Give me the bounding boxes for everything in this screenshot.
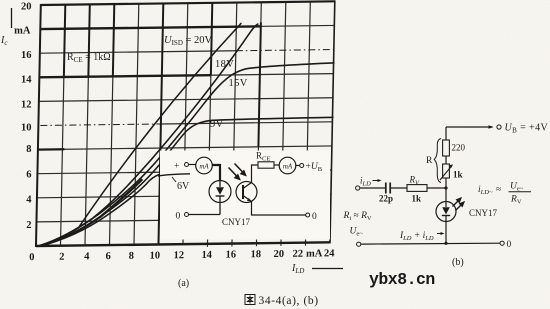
- node +U_B terminal (inset): [296, 165, 300, 167]
- x axis tick labels: [29, 248, 335, 263]
- svg-text:mA: mA: [199, 162, 209, 170]
- svg-text:2: 2: [26, 220, 31, 231]
- svg-text:mA: mA: [306, 248, 323, 259]
- svg-text:15V: 15V: [229, 78, 248, 89]
- wire: [36, 1, 335, 246]
- resistor 220: [443, 140, 450, 156]
- svg-text:20: 20: [21, 2, 32, 13]
- svg-text:1k: 1k: [453, 170, 463, 180]
- svg-text:0: 0: [29, 252, 34, 263]
- svg-text:22p: 22p: [379, 194, 393, 204]
- curve U=18V: [40, 24, 258, 246]
- svg-text:14: 14: [201, 250, 212, 261]
- svg-text:0: 0: [176, 212, 181, 222]
- svg-text:24: 24: [324, 248, 335, 259]
- svg-text:mA: mA: [14, 26, 31, 37]
- svg-text:mA: mA: [283, 162, 293, 170]
- svg-text:220: 220: [452, 143, 466, 153]
- wire R_CE to meter: [274, 164, 279, 166]
- svg-text:9V: 9V: [210, 119, 224, 130]
- svg-text:R: R: [426, 156, 433, 166]
- curve U=6V (rising part): [40, 174, 159, 245]
- svg-text:12: 12: [21, 100, 32, 111]
- svg-text:34-4(a), (b): 34-4(a), (b): [259, 295, 319, 307]
- potentiometer 1k: [443, 164, 450, 178]
- label R with brace: [434, 139, 441, 183]
- wire capacitor to R_V: [390, 187, 407, 189]
- svg-text:10: 10: [21, 123, 32, 134]
- wire potentiometer to node A: [445, 178, 447, 201]
- svg-text:≈: ≈: [496, 185, 501, 195]
- wire meter to LED anode: [212, 165, 220, 181]
- optocoupler U1 CNY17 phototransistor: [236, 182, 257, 203]
- wire R_V to node A: [427, 187, 446, 189]
- meter mA M1 (LED current): [196, 157, 213, 174]
- wire emitter to 0 terminal right: [252, 202, 306, 216]
- wire: [40, 50, 333, 126]
- svg-text:0: 0: [312, 212, 317, 222]
- svg-text:UB = +4V: UB = +4V: [505, 123, 549, 135]
- wire input to capacitor: [360, 187, 385, 189]
- svg-text:6V: 6V: [177, 181, 190, 192]
- svg-text:RCE = 1kΩ: RCE = 1kΩ: [67, 52, 111, 64]
- svg-text:8: 8: [129, 251, 134, 262]
- svg-text:16: 16: [21, 50, 32, 61]
- svg-text:10: 10: [149, 250, 160, 261]
- inset white panel: [160, 151, 330, 240]
- svg-text:18V: 18V: [215, 59, 234, 70]
- wire: [207, 243, 305, 247]
- light coupling arrows: [229, 164, 246, 180]
- svg-text:(a): (a): [178, 278, 189, 289]
- wire 220 to potentiometer: [445, 156, 447, 164]
- svg-text:ybx8.cn: ybx8.cn: [369, 270, 435, 289]
- curve U=20V: [40, 23, 241, 246]
- svg-text:20: 20: [273, 249, 284, 260]
- wire: [36, 0, 335, 247]
- capacitor 22p: [385, 183, 387, 194]
- optocoupler U1 CNY17 LED: [209, 181, 231, 203]
- node input terminal (b): [356, 186, 360, 190]
- svg-text:16: 16: [225, 249, 236, 260]
- curve bundle core: [40, 179, 142, 246]
- wire rail to resistor 220: [445, 127, 447, 140]
- svg-text:2: 2: [59, 252, 64, 263]
- svg-text:18: 18: [250, 249, 261, 260]
- svg-text:CNY17: CNY17: [469, 208, 498, 218]
- y axis tick labels: [14, 2, 32, 232]
- wire collector to R_CE: [252, 165, 259, 183]
- curve U=15V: [40, 63, 335, 246]
- svg-text:(b): (b): [452, 257, 464, 268]
- svg-text:4: 4: [26, 195, 32, 206]
- curve U=9V: [40, 117, 334, 246]
- wire input to meter: [189, 164, 197, 166]
- svg-text:14: 14: [21, 75, 32, 86]
- svg-text:8: 8: [26, 144, 31, 155]
- LED emission arrows: [453, 198, 464, 210]
- wire LED cathode to 0 rail: [445, 222, 447, 244]
- label 6V: [172, 177, 176, 182]
- svg-text:12: 12: [173, 250, 184, 261]
- diode CNY17 LED (b): [436, 202, 456, 222]
- meter mA M2 (collector current): [279, 157, 296, 174]
- svg-text:6: 6: [106, 251, 111, 262]
- svg-text:6: 6: [26, 170, 31, 181]
- wire supply rail (b): [446, 126, 493, 128]
- wire 0 rail (b): [357, 242, 361, 246]
- svg-text:1k: 1k: [412, 194, 422, 204]
- curve U=6V (flat tail): [158, 174, 190, 176]
- svg-text:22: 22: [292, 249, 303, 260]
- y axis title I_C arrow: [11, 8, 13, 28]
- wire: [161, 122, 333, 124]
- svg-text:0: 0: [507, 240, 512, 250]
- svg-text:CNY17: CNY17: [222, 217, 251, 227]
- svg-text:UISD = 20V: UISD = 20V: [164, 35, 213, 47]
- caption: figure number: [245, 295, 255, 305]
- svg-text:+: +: [174, 162, 179, 172]
